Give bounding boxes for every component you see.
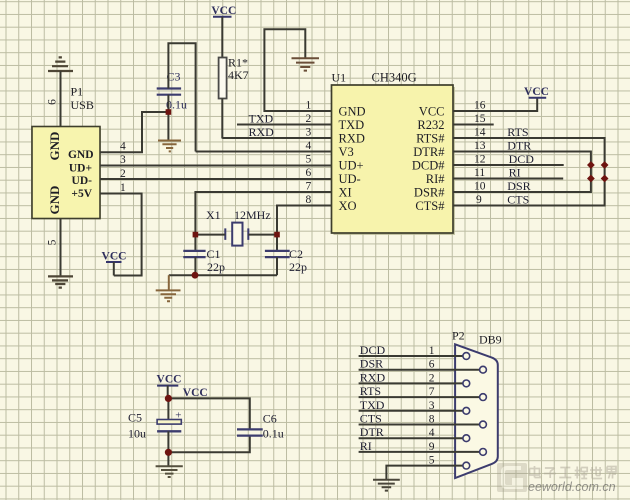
svg-text:C5: C5 bbox=[128, 411, 142, 425]
wire V3 row to U1 pin 4 bbox=[196, 151, 332, 153]
svg-text:14: 14 bbox=[474, 127, 486, 139]
wire UD+ net (P1 to U1 pin 5) bbox=[100, 165, 332, 167]
svg-text:R232: R232 bbox=[417, 118, 444, 132]
svg-text:22p: 22p bbox=[289, 260, 307, 274]
svg-text:DSR: DSR bbox=[507, 179, 530, 193]
capacitor C3 bbox=[157, 89, 181, 95]
wire U1 pin 15 stub bbox=[453, 124, 494, 126]
svg-text:3: 3 bbox=[429, 400, 435, 412]
junction VCC/C5 top bbox=[165, 395, 172, 402]
connector P1 box bbox=[32, 127, 101, 220]
svg-text:12MHz: 12MHz bbox=[234, 208, 271, 222]
svg-text:RXD: RXD bbox=[249, 125, 275, 139]
svg-text:P2: P2 bbox=[452, 329, 465, 343]
svg-text:CTS#: CTS# bbox=[415, 199, 445, 213]
resistor R1 bbox=[219, 58, 227, 99]
P2 holes pins 1,2,3,4,5 bbox=[463, 353, 470, 469]
wire DSR row to P2 pin 6 bbox=[359, 369, 480, 371]
wire RI# stub (pin 11) bbox=[453, 178, 563, 180]
wire TXD to U1 pin 2 bbox=[237, 124, 332, 126]
wire DCD row to P2 pin 1 bbox=[359, 355, 463, 357]
svg-text:+5V: +5V bbox=[71, 188, 92, 200]
svg-text:6: 6 bbox=[306, 167, 312, 179]
svg-text:USB: USB bbox=[71, 98, 94, 112]
svg-text:10u: 10u bbox=[128, 427, 146, 441]
wire C5 bottom to ground bbox=[167, 431, 169, 466]
svg-text:TXD: TXD bbox=[339, 118, 365, 132]
svg-text:VCC: VCC bbox=[419, 105, 445, 119]
svg-text:TXD: TXD bbox=[360, 398, 385, 412]
svg-text:X1: X1 bbox=[206, 208, 221, 222]
svg-text:5: 5 bbox=[306, 154, 312, 166]
wire P1 pin 5 down bbox=[60, 219, 62, 277]
junction XI/crystal bbox=[193, 232, 199, 238]
svg-text:VCC: VCC bbox=[524, 86, 549, 98]
svg-text:6: 6 bbox=[429, 359, 435, 371]
svg-text:5: 5 bbox=[47, 239, 59, 245]
svg-text:10: 10 bbox=[474, 181, 486, 193]
svg-text:7: 7 bbox=[429, 386, 435, 398]
svg-text:C6: C6 bbox=[263, 412, 277, 426]
U1 right pin labels bbox=[412, 105, 445, 214]
wire crystal right lead bbox=[248, 234, 277, 236]
wire C3 top to V3 line (U1 pin 4) bbox=[168, 43, 195, 151]
U1 left pin numbers 1-8 bbox=[306, 100, 312, 207]
svg-text:16: 16 bbox=[474, 100, 486, 112]
svg-text:9: 9 bbox=[429, 441, 435, 453]
wire C5 top bbox=[167, 398, 169, 419]
wire CTS row to P2 pin 8 bbox=[359, 424, 480, 426]
svg-text:4: 4 bbox=[429, 427, 435, 439]
ground (below C3) bbox=[158, 141, 181, 152]
power symbol VCC (above C5) bbox=[157, 374, 182, 399]
svg-text:XO: XO bbox=[339, 199, 357, 213]
svg-text:GND: GND bbox=[47, 132, 62, 161]
wire P1 pin 6 to ground bbox=[60, 71, 62, 127]
svg-text:UD-: UD- bbox=[339, 172, 361, 186]
U1 right pin numbers 16-9 bbox=[474, 100, 486, 207]
svg-text:DTR: DTR bbox=[360, 425, 384, 439]
wire DTR#-DSR# loop (pins 13-10) bbox=[453, 152, 591, 193]
wire crystal left lead bbox=[195, 234, 225, 236]
svg-text:1: 1 bbox=[306, 100, 312, 112]
svg-text:2: 2 bbox=[306, 113, 312, 125]
svg-text:8: 8 bbox=[306, 194, 312, 206]
ground (P2 pin 5) bbox=[373, 480, 400, 491]
P2 pin numbers bbox=[429, 345, 435, 467]
wire TXD row to P2 pin 3 bbox=[359, 410, 463, 412]
svg-text:UD+: UD+ bbox=[69, 163, 92, 175]
junction DTR vertical / DCD row bbox=[587, 161, 595, 169]
svg-text:RXD: RXD bbox=[360, 370, 386, 384]
ground (below C1/C2 rail) bbox=[156, 290, 181, 301]
wire U1 pin 16 to VCC bbox=[453, 98, 537, 111]
svg-text:P1: P1 bbox=[71, 85, 84, 99]
junction C3/GND-pin4 bbox=[166, 109, 172, 115]
power symbol VCC (top, above R1) bbox=[211, 5, 236, 58]
svg-text:CH340G: CH340G bbox=[372, 71, 417, 85]
watermark logo bbox=[497, 463, 527, 492]
svg-text:DSR#: DSR# bbox=[414, 186, 445, 200]
capacitor C5 (electrolytic) bbox=[157, 410, 181, 432]
svg-text:RTS#: RTS# bbox=[416, 132, 445, 146]
wire C3 bottom to ground bbox=[167, 95, 169, 140]
svg-text:6: 6 bbox=[47, 99, 59, 105]
svg-text:1: 1 bbox=[120, 182, 126, 194]
svg-text:5: 5 bbox=[429, 455, 435, 467]
svg-text:DCD: DCD bbox=[360, 343, 386, 357]
junction C5 bottom bbox=[165, 449, 172, 456]
wire +5V from P1 pin 1 to VCC bracket bbox=[100, 194, 142, 276]
svg-text:VCC: VCC bbox=[157, 374, 182, 386]
svg-text:8: 8 bbox=[429, 414, 435, 426]
wire DCD# stub (pin 12) bbox=[453, 164, 564, 166]
svg-text:C1: C1 bbox=[207, 247, 221, 261]
capacitor C6 bbox=[237, 429, 263, 435]
svg-text:UD+: UD+ bbox=[339, 159, 364, 173]
ground (below C5) bbox=[156, 466, 183, 477]
wire RTS#-CTS# loop (pins 14-9) bbox=[453, 138, 605, 206]
watermark text chinese bbox=[530, 466, 617, 479]
svg-text:15: 15 bbox=[474, 113, 486, 125]
wire P1 GND pin 4 to C3 junction bbox=[100, 112, 168, 152]
wire RTS row to P2 pin 7 bbox=[359, 396, 480, 398]
U1 left pin labels bbox=[339, 105, 366, 214]
svg-text:VCC: VCC bbox=[102, 251, 127, 263]
power symbol VCC (left of C5 area, fed from +5V) bbox=[102, 251, 127, 276]
svg-text:0.1u: 0.1u bbox=[263, 427, 284, 441]
svg-text:1: 1 bbox=[429, 345, 435, 357]
svg-text:3: 3 bbox=[306, 127, 312, 139]
wire P2 pin 5 to ground bbox=[386, 466, 463, 480]
ground (U1 pin 1) bbox=[292, 58, 320, 70]
wire UD- net (P1 to U1 pin 6) bbox=[100, 178, 332, 180]
svg-text:GND: GND bbox=[68, 149, 94, 161]
svg-text:XI: XI bbox=[339, 186, 352, 200]
svg-text:CTS: CTS bbox=[507, 193, 529, 207]
svg-text:DB9: DB9 bbox=[479, 333, 502, 347]
power symbol VCC (above pin 16) bbox=[524, 86, 549, 98]
wire XI (U1 pin 7) to crystal bbox=[195, 192, 331, 250]
svg-text:UD-: UD- bbox=[72, 175, 93, 187]
wire RXD row to P2 pin 2 bbox=[359, 382, 463, 384]
svg-text:DTR#: DTR# bbox=[413, 145, 445, 159]
junction RTS vertical / DCD row bbox=[601, 161, 609, 169]
svg-text:DCD: DCD bbox=[509, 152, 535, 166]
IC U1 box bbox=[332, 85, 456, 235]
svg-text:4: 4 bbox=[306, 140, 312, 152]
wire DTR row to P2 pin 4 bbox=[359, 437, 463, 439]
svg-text:RXD: RXD bbox=[339, 132, 365, 146]
wire C2 bottom bbox=[276, 257, 278, 275]
svg-text:12: 12 bbox=[474, 154, 486, 166]
junction XO/crystal bbox=[274, 232, 280, 238]
junction RTS vertical / RI row bbox=[601, 175, 609, 183]
capacitor C2 bbox=[265, 251, 290, 257]
svg-text:U1: U1 bbox=[332, 71, 347, 85]
P2 holes pins 6,7,8,9 bbox=[480, 366, 487, 455]
svg-text:9: 9 bbox=[476, 194, 482, 206]
svg-text:TXD: TXD bbox=[249, 112, 274, 126]
svg-text:22p: 22p bbox=[207, 260, 225, 274]
svg-text:3: 3 bbox=[120, 154, 126, 166]
wire XO (U1 pin 8) to crystal bbox=[277, 206, 332, 251]
wire C1 bottom bbox=[194, 257, 196, 275]
svg-text:RTS: RTS bbox=[507, 125, 528, 139]
ground (below P1 pin 5) bbox=[48, 276, 73, 287]
capacitor C1 bbox=[183, 251, 205, 257]
ground (top-left, above P1 pin 6) bbox=[48, 57, 73, 71]
svg-text:7: 7 bbox=[306, 181, 312, 193]
svg-text:eeworld.com.cn: eeworld.com.cn bbox=[528, 480, 616, 494]
svg-text:DSR: DSR bbox=[360, 357, 383, 371]
junction C1 bottom bbox=[192, 272, 199, 279]
svg-text:11: 11 bbox=[474, 167, 485, 179]
svg-text:VCC: VCC bbox=[183, 387, 208, 399]
wire R1 bottom to RXD line bbox=[221, 99, 223, 139]
wire crystal caps ground rail bbox=[169, 274, 277, 276]
svg-text:RI#: RI# bbox=[426, 172, 446, 186]
svg-text:13: 13 bbox=[474, 140, 486, 152]
svg-text:DTR: DTR bbox=[507, 139, 531, 153]
wire bottom rail to C6 bbox=[168, 436, 249, 453]
svg-text:RI: RI bbox=[360, 439, 372, 453]
svg-text:GND: GND bbox=[47, 186, 62, 215]
wire RXD to U1 pin 3 bbox=[222, 137, 331, 139]
wire RI row to P2 pin 9 bbox=[359, 451, 480, 453]
wire VCC rail to C6 top bbox=[168, 398, 249, 429]
junction DTR vertical / RI row bbox=[587, 175, 595, 183]
svg-text:GND: GND bbox=[339, 105, 366, 119]
connector P2 DB9 body bbox=[455, 344, 498, 478]
crystal X1 bbox=[225, 223, 248, 246]
svg-text:V3: V3 bbox=[339, 145, 354, 159]
svg-text:2: 2 bbox=[429, 372, 435, 384]
wire U1 pin 1 GND loop to ground bbox=[264, 29, 331, 111]
svg-text:VCC: VCC bbox=[211, 5, 236, 17]
svg-text:4K7: 4K7 bbox=[228, 68, 249, 82]
svg-text:RTS: RTS bbox=[360, 384, 381, 398]
svg-text:CTS: CTS bbox=[360, 412, 382, 426]
svg-text:4: 4 bbox=[120, 141, 126, 153]
svg-text:DCD#: DCD# bbox=[412, 159, 445, 173]
svg-text:RI: RI bbox=[509, 166, 521, 180]
svg-text:C2: C2 bbox=[289, 247, 303, 261]
